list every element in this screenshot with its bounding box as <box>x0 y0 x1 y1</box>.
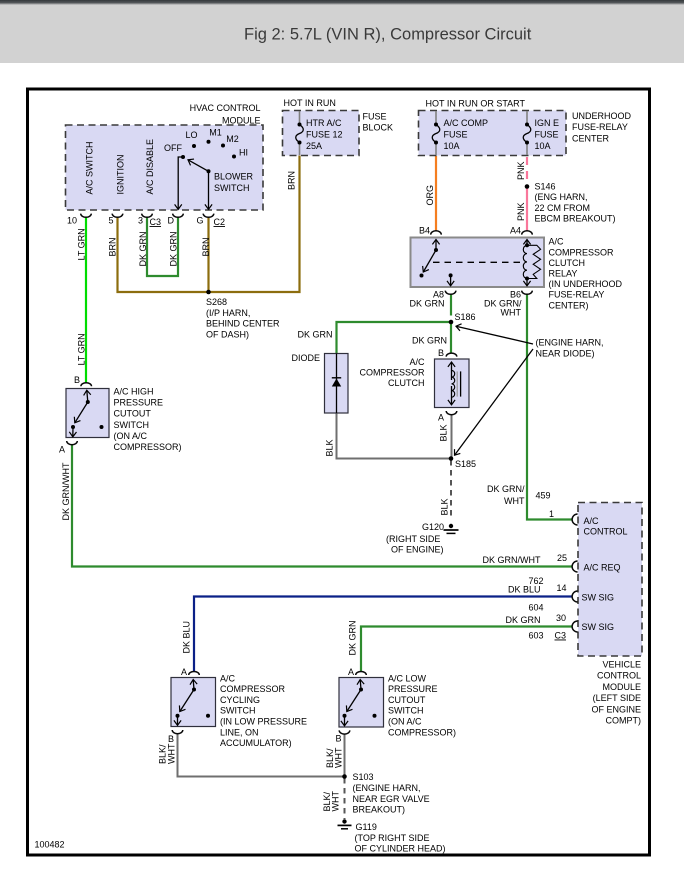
svg-text:CUTOUT: CUTOUT <box>114 409 152 419</box>
svg-text:10A: 10A <box>444 141 460 151</box>
svg-text:A/C: A/C <box>409 357 425 367</box>
svg-text:WHT: WHT <box>501 308 522 318</box>
svg-text:BLK: BLK <box>440 498 450 515</box>
svg-text:5: 5 <box>108 216 113 226</box>
svg-text:FUSE-RELAY: FUSE-RELAY <box>572 122 628 132</box>
svg-text:COMPRESSOR): COMPRESSOR) <box>114 442 182 452</box>
svg-text:A/C SWITCH: A/C SWITCH <box>85 142 95 195</box>
svg-text:FUSE: FUSE <box>535 130 559 140</box>
svg-text:SWITCH: SWITCH <box>220 706 256 716</box>
svg-text:BREAKOUT): BREAKOUT) <box>353 805 406 815</box>
svg-text:603: 603 <box>528 631 543 641</box>
svg-text:A/C: A/C <box>549 237 565 247</box>
svg-text:DK GRN: DK GRN <box>412 336 447 346</box>
svg-text:(I/P HARN,: (I/P HARN, <box>206 308 250 318</box>
svg-text:(RIGHT SIDE: (RIGHT SIDE <box>386 534 440 544</box>
svg-text:VEHICLE: VEHICLE <box>602 660 641 670</box>
svg-text:BLK: BLK <box>325 439 335 456</box>
svg-text:COMPRESSOR: COMPRESSOR <box>220 684 286 694</box>
svg-text:C3: C3 <box>555 631 567 641</box>
svg-text:NEAR DIODE): NEAR DIODE) <box>536 348 595 358</box>
svg-text:WHT: WHT <box>334 747 344 768</box>
svg-text:DK GRN: DK GRN <box>505 615 540 625</box>
svg-text:25A: 25A <box>306 141 322 151</box>
svg-text:OFF: OFF <box>164 143 182 153</box>
svg-text:CUTOUT: CUTOUT <box>388 695 426 705</box>
svg-text:PNK: PNK <box>516 161 526 180</box>
svg-text:B: B <box>335 734 341 744</box>
svg-text:DK GRN: DK GRN <box>348 620 358 655</box>
svg-text:C3: C3 <box>150 217 162 227</box>
svg-text:CONTROL: CONTROL <box>584 526 628 536</box>
svg-text:FUSE: FUSE <box>444 130 468 140</box>
svg-text:25: 25 <box>557 553 567 563</box>
svg-text:MODULE: MODULE <box>602 682 641 692</box>
svg-text:A/C DISABLE: A/C DISABLE <box>145 139 155 195</box>
svg-text:MODULE: MODULE <box>222 115 261 125</box>
svg-text:COMPT): COMPT) <box>606 716 642 726</box>
svg-text:A/C: A/C <box>220 673 236 683</box>
svg-text:HOT IN RUN OR START: HOT IN RUN OR START <box>426 99 526 109</box>
svg-text:CONTROL: CONTROL <box>597 671 641 681</box>
svg-text:S185: S185 <box>455 459 476 469</box>
svg-text:G: G <box>196 216 203 226</box>
svg-text:HVAC CONTROL: HVAC CONTROL <box>190 103 261 113</box>
svg-text:SWITCH: SWITCH <box>214 183 250 193</box>
svg-text:A/C COMP: A/C COMP <box>444 118 489 128</box>
svg-text:B: B <box>438 348 444 358</box>
svg-text:BLK: BLK <box>439 424 449 441</box>
svg-text:(ON A/C: (ON A/C <box>114 431 148 441</box>
svg-text:HTR A/C: HTR A/C <box>306 118 342 128</box>
svg-text:A/C: A/C <box>584 516 600 526</box>
svg-text:BLOWER: BLOWER <box>214 172 254 182</box>
svg-text:(IN UNDERHOOD: (IN UNDERHOOD <box>549 279 623 289</box>
svg-text:D: D <box>168 216 175 226</box>
svg-text:CENTER): CENTER) <box>549 300 589 310</box>
svg-text:(TOP RIGHT SIDE: (TOP RIGHT SIDE <box>355 833 430 843</box>
svg-text:DIODE: DIODE <box>291 353 320 363</box>
svg-text:BRN: BRN <box>287 171 297 190</box>
svg-text:LT GRN: LT GRN <box>77 333 87 365</box>
svg-text:S103: S103 <box>353 772 374 782</box>
svg-text:DK GRN/WHT: DK GRN/WHT <box>483 555 541 565</box>
svg-text:(ENGINE HARN,: (ENGINE HARN, <box>353 783 421 793</box>
svg-text:BRN: BRN <box>108 237 118 256</box>
svg-text:A/C LOW: A/C LOW <box>388 673 427 683</box>
svg-text:A: A <box>181 667 187 677</box>
svg-text:30: 30 <box>556 613 566 623</box>
svg-text:OF CYLINDER HEAD): OF CYLINDER HEAD) <box>355 844 446 854</box>
svg-text:3: 3 <box>138 216 143 226</box>
svg-text:RELAY: RELAY <box>549 269 578 279</box>
svg-text:10: 10 <box>67 216 77 226</box>
svg-text:ACCUMULATOR): ACCUMULATOR) <box>220 738 292 748</box>
svg-text:S146: S146 <box>535 181 556 191</box>
svg-text:B4: B4 <box>419 226 430 236</box>
svg-text:CYCLING: CYCLING <box>220 695 260 705</box>
svg-text:LO: LO <box>185 130 197 140</box>
svg-text:A: A <box>348 667 354 677</box>
svg-text:WHT: WHT <box>331 791 341 812</box>
svg-text:LINE, ON: LINE, ON <box>220 727 259 737</box>
svg-text:DK GRN: DK GRN <box>169 231 179 266</box>
svg-text:S186: S186 <box>455 312 476 322</box>
svg-text:(IN LOW PRESSURE: (IN LOW PRESSURE <box>220 717 307 727</box>
svg-text:BEHIND CENTER: BEHIND CENTER <box>206 319 280 329</box>
svg-text:100482: 100482 <box>35 840 65 850</box>
svg-text:M1: M1 <box>209 128 222 138</box>
svg-text:BRN: BRN <box>201 237 211 256</box>
svg-text:A: A <box>59 445 65 455</box>
svg-text:UNDERHOOD: UNDERHOOD <box>572 111 632 121</box>
svg-text:WHT: WHT <box>167 743 177 764</box>
svg-text:EBCM BREAKOUT): EBCM BREAKOUT) <box>535 214 616 224</box>
svg-text:G120: G120 <box>422 522 444 532</box>
svg-text:A/C HIGH: A/C HIGH <box>114 387 154 397</box>
svg-text:(ENGINE HARN,: (ENGINE HARN, <box>536 338 604 348</box>
svg-text:G119: G119 <box>356 822 377 832</box>
svg-text:459: 459 <box>536 491 551 501</box>
svg-text:DK BLU: DK BLU <box>508 585 541 595</box>
svg-text:OF DASH): OF DASH) <box>206 329 249 339</box>
svg-text:A4: A4 <box>510 226 521 236</box>
svg-text:DK GRN/: DK GRN/ <box>487 484 525 494</box>
svg-text:PRESSURE: PRESSURE <box>114 398 164 408</box>
svg-text:M2: M2 <box>226 134 239 144</box>
svg-text:FUSE-RELAY: FUSE-RELAY <box>549 290 605 300</box>
svg-text:PRESSURE: PRESSURE <box>388 684 438 694</box>
svg-text:FUSE 12: FUSE 12 <box>306 130 343 140</box>
svg-text:ORG: ORG <box>425 185 435 206</box>
svg-text:DK GRN: DK GRN <box>409 299 444 309</box>
svg-text:BLOCK: BLOCK <box>363 123 394 133</box>
svg-text:Fig 2: 5.7L (VIN R), Compresso: Fig 2: 5.7L (VIN R), Compressor Circuit <box>244 26 532 44</box>
svg-text:SW SIG: SW SIG <box>582 592 615 602</box>
svg-text:HOT IN RUN: HOT IN RUN <box>284 98 336 108</box>
svg-text:C2: C2 <box>214 217 226 227</box>
svg-text:DK GRN: DK GRN <box>298 330 333 340</box>
svg-text:10A: 10A <box>535 141 551 151</box>
svg-text:OF ENGINE): OF ENGINE) <box>391 545 444 555</box>
svg-text:HI: HI <box>239 148 248 158</box>
svg-text:B: B <box>74 375 80 385</box>
svg-text:COMPRESSOR): COMPRESSOR) <box>388 727 456 737</box>
svg-text:(ON A/C: (ON A/C <box>388 717 422 727</box>
svg-text:COMPRESSOR: COMPRESSOR <box>359 367 425 377</box>
svg-text:CLUTCH: CLUTCH <box>388 378 425 388</box>
svg-text:SW SIG: SW SIG <box>582 622 615 632</box>
svg-text:IGNITION: IGNITION <box>116 155 126 195</box>
svg-text:B: B <box>168 734 174 744</box>
svg-text:1: 1 <box>549 509 554 519</box>
svg-text:A: A <box>438 413 444 423</box>
svg-text:FUSE: FUSE <box>363 112 387 122</box>
svg-text:OF ENGINE: OF ENGINE <box>591 704 641 714</box>
svg-text:CLUTCH: CLUTCH <box>549 258 586 268</box>
svg-text:22 CM FROM: 22 CM FROM <box>535 203 591 213</box>
svg-text:S268: S268 <box>206 297 227 307</box>
svg-text:CENTER: CENTER <box>572 133 610 143</box>
svg-text:DK GRN/WHT: DK GRN/WHT <box>61 462 71 520</box>
svg-text:COMPRESSOR: COMPRESSOR <box>549 247 615 257</box>
svg-text:LT GRN: LT GRN <box>77 228 87 260</box>
svg-text:(ENG HARN,: (ENG HARN, <box>535 192 588 202</box>
svg-text:WHT: WHT <box>504 496 525 506</box>
svg-text:604: 604 <box>528 603 543 613</box>
svg-text:14: 14 <box>556 583 566 593</box>
svg-text:SWITCH: SWITCH <box>114 420 150 430</box>
svg-text:IGN E: IGN E <box>535 118 560 128</box>
svg-text:PNK: PNK <box>516 202 526 221</box>
svg-text:SWITCH: SWITCH <box>388 706 424 716</box>
svg-text:NEAR EGR VALVE: NEAR EGR VALVE <box>353 794 430 804</box>
svg-text:(LEFT SIDE: (LEFT SIDE <box>593 693 641 703</box>
svg-text:DK GRN: DK GRN <box>138 231 148 266</box>
svg-text:A/C REQ: A/C REQ <box>584 562 621 572</box>
svg-text:DK BLU: DK BLU <box>182 621 192 654</box>
